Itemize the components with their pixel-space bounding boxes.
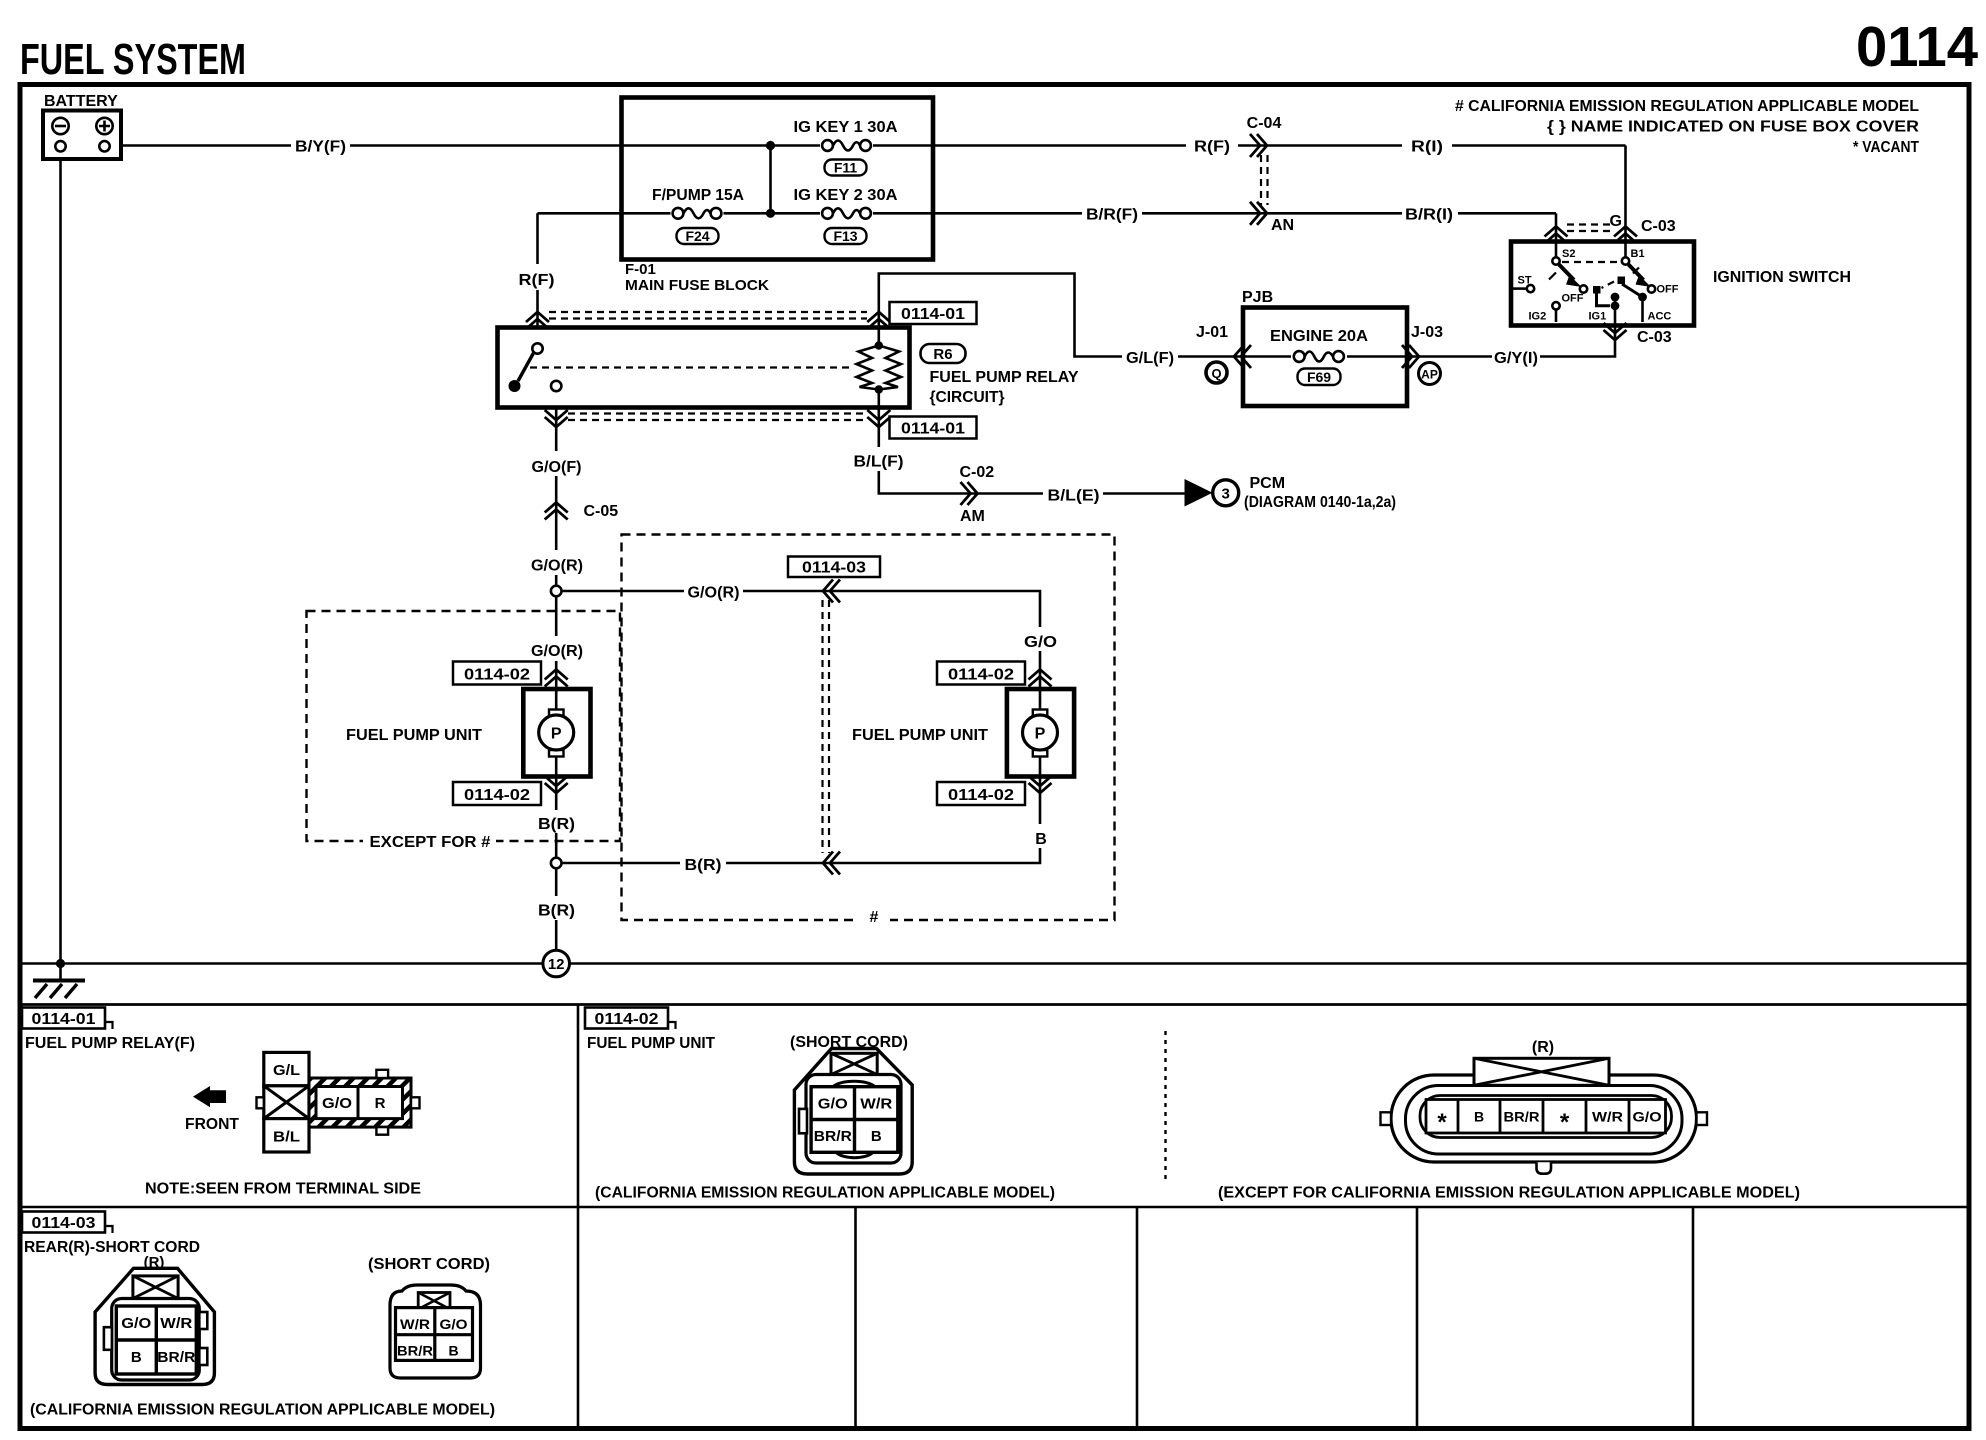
relay R6 tag: [921, 344, 966, 363]
label G/O(R) on branch: [684, 578, 743, 602]
svg-text:BATTERY: BATTERY: [44, 93, 118, 110]
svg-text:R(F): R(F): [519, 272, 555, 289]
PJB box: [1243, 308, 1407, 407]
ground node 12: [543, 950, 570, 977]
svg-text:B: B: [871, 1128, 882, 1145]
label B/L(E): [1043, 482, 1103, 505]
svg-text:*: *: [1560, 1109, 1570, 1136]
connector C-05 chevron: [545, 503, 568, 520]
connector C-03 bottom chevron: [1604, 323, 1627, 340]
0114-01 bottom tag: [890, 417, 977, 439]
svg-text:G/O: G/O: [1633, 1109, 1662, 1125]
label G/L(F): [1122, 346, 1178, 368]
svg-text:REAR(R)-SHORT CORD: REAR(R)-SHORT CORD: [24, 1239, 200, 1256]
connector B(R) chevron: [823, 852, 840, 875]
connector short cord row2: [390, 1285, 481, 1378]
label G/O right branch: [1018, 627, 1062, 651]
svg-text:B1: B1: [1631, 248, 1645, 260]
svg-text:W/R: W/R: [400, 1316, 430, 1332]
svg-text:FRONT: FRONT: [185, 1116, 239, 1133]
connector (R) stadium: [1381, 1058, 1708, 1173]
svg-text:BR/R: BR/R: [397, 1343, 433, 1359]
svg-text:OFF: OFF: [1562, 293, 1584, 305]
fuse ENGINE 20A F69: [1243, 328, 1407, 385]
svg-text:B/R(F): B/R(F): [1086, 206, 1138, 223]
0114-01 bottom dashed link: [568, 414, 867, 421]
svg-text:AN: AN: [1271, 217, 1294, 234]
svg-text:R(I): R(I): [1411, 139, 1443, 156]
0114-03 dashed link: [823, 600, 830, 853]
relay switch lever: [518, 353, 534, 381]
connector C-03 chevron S2: [1545, 227, 1568, 244]
svg-text:0114-02: 0114-02: [948, 667, 1014, 684]
junction dot ground bus: [56, 959, 65, 968]
relay switch common dot: [509, 380, 521, 392]
connector 0114-01 bottom chevron left: [545, 410, 568, 427]
svg-text:G/L: G/L: [273, 1062, 300, 1079]
svg-text:(SHORT CORD): (SHORT CORD): [368, 1256, 490, 1273]
wire PJB fuse row: [1243, 355, 1407, 358]
right fuel pump unit motor: [1007, 689, 1074, 777]
svg-text:ST: ST: [1518, 275, 1532, 287]
svg-text:PJB: PJB: [1242, 289, 1273, 306]
wire relay sw output G/O down to junction: [555, 408, 558, 586]
C-04/AN dashed link: [1261, 155, 1268, 205]
wire left pump down to B(R) junction: [555, 777, 558, 858]
svg-text:0114-02: 0114-02: [595, 1011, 659, 1028]
ground bus line: [20, 962, 1969, 965]
label R(I) on row1: [1402, 135, 1452, 156]
svg-text:FUEL SYSTEM: FUEL SYSTEM: [20, 35, 246, 84]
label B/Y(F): [291, 135, 350, 156]
svg-text:F24: F24: [685, 228, 709, 244]
relay connector X cell: [264, 1086, 309, 1119]
FRONT arrow: [193, 1086, 226, 1107]
wire B/L(F) from relay coil to PCM: [879, 408, 1188, 494]
table vertical row1: [577, 1005, 580, 1208]
svg-text:S2: S2: [1562, 248, 1575, 260]
wire battery ground drop: [59, 152, 62, 964]
connector J-01 chevron: [1234, 345, 1251, 368]
label B(R) lower vertical: [534, 896, 579, 920]
svg-text:B: B: [1035, 831, 1047, 848]
wire relay coil riser to G/L(F) corner: [879, 274, 1243, 357]
wire B(R) junction down to ground circle: [555, 868, 558, 950]
label B(R) on branch: [680, 851, 726, 875]
svg-text:C-05: C-05: [584, 503, 619, 520]
table verticals row2: [578, 1207, 1693, 1429]
svg-text:J-03: J-03: [1411, 324, 1443, 341]
svg-text:Q: Q: [1211, 366, 1221, 381]
svg-text:BR/R: BR/R: [814, 1128, 852, 1145]
junction node B(R): [551, 858, 562, 869]
svg-text:0114-02: 0114-02: [948, 787, 1014, 804]
svg-text:AM: AM: [960, 508, 985, 525]
ignition switch internals: [1511, 242, 1679, 326]
fuse IG KEY 1 30A F11: [794, 119, 898, 176]
svg-text:12: 12: [548, 956, 565, 973]
svg-text:(CALIFORNIA EMISSION REGULATIO: (CALIFORNIA EMISSION REGULATION APPLICAB…: [595, 1185, 1055, 1202]
svg-text:G/O(R): G/O(R): [531, 558, 583, 575]
fuel pump relay box: [498, 328, 910, 408]
connector C-04 chevron: [1250, 134, 1267, 157]
PCM arrow: [1185, 479, 1213, 507]
connector 0114-01 bottom chevron right: [867, 410, 890, 427]
label B/R(F) on row2: [1082, 203, 1142, 224]
svg-text:ACC: ACC: [1648, 311, 1672, 323]
svg-text:FUEL PUMP UNIT: FUEL PUMP UNIT: [587, 1035, 715, 1052]
svg-text:B(R): B(R): [538, 903, 575, 920]
svg-text:G/L(F): G/L(F): [1126, 350, 1174, 367]
node Q: [1206, 362, 1227, 383]
wire G/O(R) branch to right pump: [562, 591, 1041, 689]
wire R(I) drop to ignition B1: [1624, 146, 1627, 243]
wire B/Y(F) battery to fuse block row1 to C-04 to R(I) corner: [110, 144, 1626, 147]
svg-text:MAIN FUSE BLOCK: MAIN FUSE BLOCK: [625, 277, 769, 294]
connector AN chevron: [1250, 202, 1267, 225]
fuse F/PUMP 15A F24: [652, 187, 744, 244]
svg-text:FUEL PUMP UNIT: FUEL PUMP UNIT: [346, 727, 482, 744]
svg-text:0114-03: 0114-03: [802, 560, 866, 577]
svg-text:0114-01: 0114-01: [901, 306, 965, 323]
svg-text:# CALIFORNIA EMISSION REGULATI: # CALIFORNIA EMISSION REGULATION APPLICA…: [1455, 98, 1919, 115]
relay actuation dashed link: [530, 366, 850, 368]
C-03 dashed link: [1567, 225, 1615, 232]
left pump bottom chevron: [545, 776, 568, 793]
svg-text:ENGINE 20A: ENGINE 20A: [1270, 328, 1368, 345]
svg-text:P: P: [1035, 726, 1046, 743]
svg-text:C-04: C-04: [1247, 115, 1282, 132]
svg-text:G/O: G/O: [322, 1095, 352, 1112]
svg-text:BR/R: BR/R: [157, 1349, 195, 1366]
connector 0114-01 top chevron right: [867, 312, 890, 329]
svg-text:(R): (R): [1532, 1039, 1554, 1056]
svg-text:W/R: W/R: [1592, 1109, 1623, 1125]
0114-02 section tag: [585, 1008, 676, 1030]
svg-text:P: P: [551, 726, 562, 743]
svg-text:B/R(I): B/R(I): [1405, 206, 1453, 223]
svg-text:{ } NAME INDICATED ON FUSE BOX: { } NAME INDICATED ON FUSE BOX COVER: [1547, 119, 1919, 136]
svg-text:W/R: W/R: [160, 1315, 192, 1332]
right pump top chevron: [1029, 670, 1052, 687]
svg-text:G/O: G/O: [818, 1096, 848, 1113]
fuse IG KEY 2 30A F13: [794, 187, 898, 244]
label # on dashed box: [858, 904, 890, 930]
junction dot row1: [766, 141, 775, 150]
svg-text:G/O(R): G/O(R): [531, 643, 583, 660]
0114-03 section tag: [22, 1212, 113, 1234]
svg-text:0114-01: 0114-01: [32, 1011, 96, 1028]
dashed box california models: [622, 535, 1115, 921]
svg-text:B/L(E): B/L(E): [1048, 488, 1100, 505]
svg-text:B/L: B/L: [273, 1129, 300, 1146]
svg-text:(EXCEPT FOR CALIFORNIA EMISSIO: (EXCEPT FOR CALIFORNIA EMISSION REGULATI…: [1218, 1185, 1800, 1202]
ignition switch box: [1511, 242, 1694, 326]
svg-text:(CALIFORNIA EMISSION REGULATIO: (CALIFORNIA EMISSION REGULATION APPLICAB…: [30, 1402, 495, 1419]
relay connector hatched body: [309, 1070, 420, 1135]
svg-text:0114: 0114: [1856, 15, 1978, 79]
svg-text:EXCEPT FOR #: EXCEPT FOR #: [370, 834, 491, 851]
svg-text:B(R): B(R): [538, 816, 575, 833]
label B/L(F): [850, 447, 907, 471]
relay connector B/L cell: [264, 1119, 309, 1152]
label G/O(F): [528, 451, 585, 476]
svg-text:B(R): B(R): [685, 857, 722, 874]
0114-01 top dashed link: [549, 312, 867, 319]
wire fuse row link: [769, 146, 772, 214]
label G: [1610, 211, 1623, 230]
label B/R(I) on row2: [1402, 203, 1458, 224]
table separator row2: [20, 1206, 1969, 1209]
table dashed separator: [1164, 1031, 1166, 1184]
svg-text:FUEL PUMP UNIT: FUEL PUMP UNIT: [852, 727, 988, 744]
svg-text:B/Y(F): B/Y(F): [295, 139, 346, 156]
svg-text:G/O: G/O: [440, 1316, 468, 1332]
svg-text:IG2: IG2: [1529, 311, 1547, 323]
left pump 0114-02 tag bottom: [453, 782, 541, 805]
svg-text:AP: AP: [1421, 368, 1438, 382]
PCM node 3: [1213, 480, 1239, 506]
label G/O(R) upper: [528, 550, 586, 575]
dashed box EXCEPT FOR #: [307, 611, 621, 841]
svg-text:FUEL PUMP RELAY(F): FUEL PUMP RELAY(F): [25, 1035, 195, 1052]
svg-text:IG KEY 1 30A: IG KEY 1 30A: [794, 119, 898, 136]
connector california fuel pump unit: [794, 1049, 912, 1175]
svg-text:* VACANT: * VACANT: [1853, 139, 1919, 156]
label G/Y(I): [1492, 346, 1540, 368]
right pump 0114-02 tag top: [937, 662, 1025, 685]
svg-text:IGNITION SWITCH: IGNITION SWITCH: [1713, 269, 1851, 286]
table separator top: [20, 1003, 1969, 1006]
svg-text:0114-02: 0114-02: [464, 787, 530, 804]
svg-text:OFF: OFF: [1657, 284, 1679, 296]
wire R(F) drop from fuse row2 to relay: [536, 213, 539, 327]
left pump top chevron: [545, 670, 568, 687]
connector 0114-03 chevron: [823, 580, 840, 603]
svg-text:PCM: PCM: [1250, 475, 1286, 492]
wire junction down to left pump: [555, 596, 558, 689]
junction node G/O(R): [551, 586, 562, 597]
relay switch pivot: [532, 343, 542, 353]
svg-text:*: *: [1437, 1109, 1447, 1136]
ground symbol chassis: [33, 964, 85, 999]
svg-text:{CIRCUIT}: {CIRCUIT}: [930, 389, 1005, 406]
connector 0114-01 top chevron left: [526, 312, 549, 329]
main fuse block F-01: [622, 98, 934, 260]
label R(F) on row1: [1186, 135, 1238, 156]
svg-text:F/PUMP 15A: F/PUMP 15A: [652, 187, 744, 204]
battery: [43, 93, 121, 159]
svg-text:R(F): R(F): [1194, 139, 1230, 156]
svg-text:B: B: [448, 1343, 458, 1359]
relay connector left tab: [257, 1097, 264, 1108]
svg-text:NOTE:SEEN FROM TERMINAL SIDE: NOTE:SEEN FROM TERMINAL SIDE: [145, 1181, 421, 1198]
svg-text:FUEL PUMP RELAY: FUEL PUMP RELAY: [930, 369, 1079, 386]
svg-text:C-02: C-02: [960, 464, 995, 481]
wire B/R(I) drop to ignition S2: [1555, 213, 1558, 242]
svg-text:BR/R: BR/R: [1504, 1109, 1540, 1125]
svg-text:G/O(F): G/O(F): [532, 459, 582, 476]
svg-text:IG1: IG1: [1589, 311, 1607, 323]
svg-text:(DIAGRAM 0140-1a,2a): (DIAGRAM 0140-1a,2a): [1244, 494, 1396, 511]
svg-text:C-03: C-03: [1641, 218, 1676, 235]
label B(R) left vertical: [534, 810, 579, 833]
right pump bottom chevron: [1029, 776, 1052, 793]
svg-text:G/O(R): G/O(R): [688, 585, 740, 602]
connector C-02 chevron: [961, 482, 978, 505]
svg-text:0114-02: 0114-02: [464, 667, 530, 684]
svg-text:G/O: G/O: [1024, 634, 1057, 651]
svg-text:0114-03: 0114-03: [32, 1215, 96, 1232]
0114-01 top tag: [890, 302, 977, 324]
svg-text:G/Y(I): G/Y(I): [1494, 350, 1538, 367]
0114-01 section tag: [22, 1008, 113, 1030]
svg-text:IG KEY 2 30A: IG KEY 2 30A: [794, 187, 898, 204]
0114-03 tag: [788, 557, 880, 578]
left pump 0114-02 tag top: [453, 662, 541, 685]
left fuel pump unit motor: [523, 689, 590, 777]
relay connector G/L cell: [264, 1052, 309, 1085]
relay coil: [857, 328, 902, 408]
svg-text:R: R: [375, 1095, 386, 1112]
connector J-03 chevron: [1402, 345, 1419, 368]
svg-text:B/L(F): B/L(F): [854, 454, 904, 471]
svg-text:W/R: W/R: [860, 1096, 892, 1113]
connector C-03 chevron B1: [1614, 227, 1637, 244]
svg-text:F-01: F-01: [625, 261, 656, 278]
node AP: [1419, 363, 1441, 385]
label R(F) vertical: [513, 264, 561, 290]
svg-text:F11: F11: [834, 160, 858, 176]
label G/O(R) lower: [528, 636, 586, 661]
right pump 0114-02 tag bottom: [937, 782, 1025, 805]
svg-text:3: 3: [1222, 486, 1230, 503]
svg-text:B: B: [131, 1349, 142, 1366]
svg-text:#: #: [870, 909, 879, 926]
svg-text:F69: F69: [1307, 369, 1331, 385]
svg-text:R6: R6: [933, 346, 952, 363]
svg-text:C-03: C-03: [1637, 329, 1672, 346]
svg-text:G/O: G/O: [121, 1315, 151, 1332]
svg-text:B: B: [1474, 1109, 1484, 1125]
connector rear short cord (R): [95, 1268, 214, 1384]
svg-text:G: G: [1610, 213, 1622, 230]
junction dot row2: [766, 209, 775, 218]
wire G/Y(I) from ignition IG1 to PJB: [1407, 326, 1615, 357]
svg-text:0114-01: 0114-01: [901, 421, 965, 438]
svg-text:J-01: J-01: [1196, 324, 1228, 341]
relay switch output terminal: [551, 381, 561, 391]
wire right pump down to B(R) line: [562, 777, 1041, 864]
label EXCEPT FOR #: [363, 830, 496, 851]
svg-text:F13: F13: [833, 228, 857, 244]
label B right vertical: [1026, 824, 1055, 848]
wire row2 F/PUMP B/R(F) to B/R(I): [538, 212, 1557, 215]
